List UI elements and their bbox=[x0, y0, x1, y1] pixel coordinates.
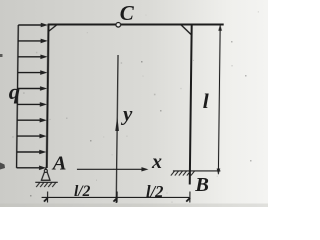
svg-text:B: B bbox=[194, 174, 209, 196]
svg-text:q: q bbox=[9, 79, 20, 104]
svg-text:l: l bbox=[203, 89, 209, 113]
svg-text:x: x bbox=[151, 151, 162, 173]
svg-text:l/2: l/2 bbox=[146, 182, 163, 201]
svg-text:A: A bbox=[51, 152, 67, 174]
svg-text:l/2: l/2 bbox=[74, 183, 91, 200]
svg-text:C: C bbox=[120, 1, 135, 25]
